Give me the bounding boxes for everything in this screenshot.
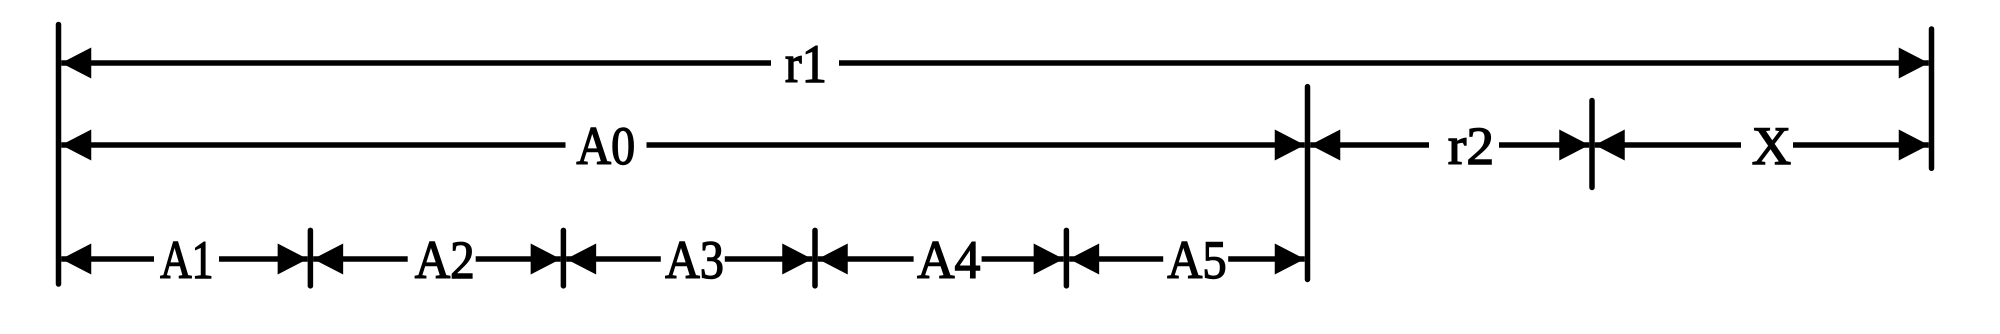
- tick: r2/X divider: [1589, 101, 1595, 188]
- arrowhead: X right: [1899, 130, 1929, 161]
- svg-text:A3: A3: [665, 230, 724, 290]
- wire: A0 dimension line: [61, 142, 1305, 148]
- svg-text:r1: r1: [785, 35, 827, 94]
- arrowhead: r1 left: [61, 48, 91, 79]
- label A5: [1163, 230, 1228, 290]
- extension line: left boundary: [56, 24, 62, 284]
- svg-text:A2: A2: [415, 231, 475, 291]
- wire: A4 dimension line: [818, 256, 1064, 262]
- arrowhead: A1 right: [278, 244, 308, 275]
- label r2: [1429, 116, 1499, 176]
- label X: [1741, 116, 1793, 176]
- wire: r2 dimension line: [1310, 142, 1589, 148]
- arrowhead: A0 right: [1275, 130, 1305, 161]
- label r1: [771, 35, 839, 94]
- wire: A1 dimension line: [61, 256, 307, 262]
- arrowhead: A5 left: [1069, 244, 1099, 275]
- svg-text:A0: A0: [576, 116, 635, 176]
- tick: A4/A5 divider: [1064, 230, 1070, 286]
- svg-text:A1: A1: [160, 229, 213, 289]
- arrowhead: A1 left: [61, 244, 91, 275]
- arrowhead: A5 right: [1275, 244, 1305, 275]
- svg-text:A4: A4: [917, 231, 980, 290]
- arrowhead: A4 right: [1034, 244, 1064, 275]
- arrowhead: r2 right: [1559, 130, 1589, 161]
- tick: A2/A3 divider: [561, 230, 567, 286]
- arrowhead: A0 left: [61, 130, 91, 161]
- svg-text:A5: A5: [1167, 230, 1226, 290]
- label A1: [154, 229, 219, 289]
- arrowhead: A3 right: [782, 244, 812, 275]
- tick: A3/A4 divider: [812, 230, 818, 286]
- arrowhead: A2 right: [531, 244, 561, 275]
- extension line: right boundary: [1929, 29, 1935, 168]
- label A2: [408, 231, 476, 291]
- wire: A3 dimension line: [566, 256, 812, 262]
- label A4: [914, 231, 982, 290]
- svg-text:X: X: [1752, 116, 1791, 176]
- label A0: [566, 116, 647, 176]
- extension line: A0/A5 right boundary: [1305, 87, 1311, 280]
- wire: A5 dimension line: [1069, 256, 1305, 262]
- wire: X dimension line: [1595, 142, 1929, 148]
- arrowhead: A3 left: [566, 244, 596, 275]
- tick: A1/A2 divider: [308, 230, 314, 286]
- wire: A2 dimension line: [313, 256, 561, 262]
- arrowhead: r1 right: [1899, 48, 1929, 79]
- arrowhead: A4 left: [818, 244, 848, 275]
- label A3: [661, 230, 725, 290]
- arrowhead: A2 left: [313, 244, 343, 275]
- arrowhead: r2 left: [1310, 130, 1340, 161]
- arrowhead: X left: [1595, 130, 1625, 161]
- wire: r1 dimension line: [61, 60, 1929, 66]
- svg-text:r2: r2: [1448, 116, 1494, 176]
